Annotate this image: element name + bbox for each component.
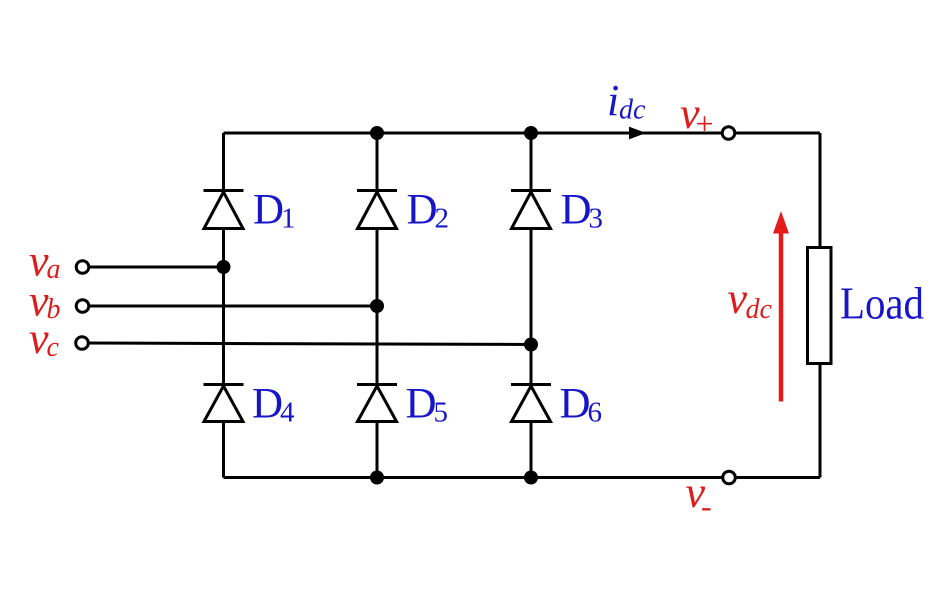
svg-text:2: 2	[435, 203, 450, 235]
wire bottom rail (v- bus)	[224, 476, 821, 479]
svg-text:5: 5	[434, 397, 449, 429]
svg-text:D: D	[253, 186, 284, 233]
wire phase c input	[82, 343, 531, 345]
diode D6	[511, 385, 551, 422]
svg-text:D: D	[406, 380, 437, 427]
junction phase a / leg 1	[217, 260, 231, 274]
diode D1	[204, 191, 244, 229]
svg-text:D: D	[560, 380, 591, 427]
svg-text:b: b	[47, 294, 61, 325]
svg-text:3: 3	[589, 203, 604, 235]
svg-text:a: a	[47, 254, 61, 285]
junction phase b / leg 2	[370, 299, 384, 313]
terminal v+	[722, 127, 735, 140]
terminal v-	[723, 471, 736, 484]
terminal va	[76, 261, 89, 274]
wire top rail (v+ bus)	[224, 132, 821, 135]
wire right branch vertical	[819, 133, 822, 478]
wire leg 1 vertical	[222, 133, 225, 478]
wire phase a input	[83, 266, 224, 269]
svg-text:6: 6	[588, 397, 603, 429]
junction top rail / leg 2	[370, 126, 384, 140]
diode D2	[357, 191, 397, 229]
svg-text:v: v	[728, 274, 748, 323]
diode D5	[357, 385, 397, 422]
wire leg 2 vertical	[376, 133, 379, 478]
svg-text:1: 1	[281, 203, 296, 235]
svg-text:D: D	[407, 186, 438, 233]
terminal vc	[76, 337, 89, 350]
diode D3	[511, 191, 551, 229]
svg-text:D: D	[561, 186, 592, 233]
resistor Load (rectangle)	[808, 248, 832, 364]
wire phase b input	[83, 305, 378, 308]
vdc reference arrow (red)	[773, 211, 789, 402]
svg-text:Load: Load	[840, 279, 924, 329]
svg-text:-: -	[701, 488, 712, 524]
diode D4	[204, 385, 244, 422]
junction top rail / leg 3	[524, 126, 538, 140]
junction bottom rail / leg 3	[524, 471, 538, 485]
svg-text:dc: dc	[746, 294, 773, 325]
wire leg 3 vertical	[530, 133, 533, 478]
current arrowhead idc on top rail	[629, 127, 646, 140]
junction bottom rail / leg 2	[370, 471, 384, 485]
svg-text:D: D	[252, 380, 283, 427]
junction phase c / leg 3	[524, 338, 538, 352]
svg-text:+: +	[696, 106, 714, 142]
svg-text:dc: dc	[619, 95, 646, 126]
svg-text:4: 4	[280, 397, 295, 429]
svg-text:c: c	[47, 332, 60, 363]
terminal vb	[76, 300, 89, 313]
svg-text:i: i	[607, 76, 619, 125]
